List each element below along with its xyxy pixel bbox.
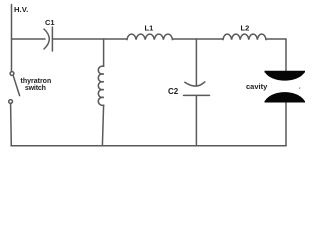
inductor L1 (127, 34, 173, 39)
thyratron switch top terminal (10, 72, 14, 76)
wire top rail L1 to L2 (over C2 junction) (173, 38, 224, 40)
wire left vertical below switch (10, 103, 13, 145)
svg-text:C2: C2 (168, 87, 179, 96)
thyratron switch bottom terminal (9, 100, 13, 104)
wire middle branch below coil (102, 105, 103, 146)
wire middle branch above coil (103, 39, 105, 66)
cavity bottom electrode (265, 92, 306, 102)
svg-text:L1: L1 (145, 24, 154, 33)
thyratron switch blade (13, 76, 19, 95)
svg-text:H.V.: H.V. (14, 5, 28, 14)
wire right vertical below cavity (285, 102, 287, 146)
svg-text:cavity: cavity (246, 82, 268, 91)
capacitor C1 curved plate (44, 29, 49, 49)
wire C2 branch above plate (195, 39, 197, 86)
svg-text:thyratron: thyratron (21, 78, 52, 85)
wire top rail L2 to right corner (266, 38, 286, 40)
speck in cavity gap (299, 88, 300, 89)
svg-text:L2: L2 (241, 24, 250, 33)
wire top rail C1 to L1 (52, 38, 127, 40)
inductor L2 (223, 34, 266, 39)
wire C2 branch below plate (195, 95, 197, 145)
capacitor C1 straight plate (51, 27, 53, 51)
wire top rail left segment (12, 38, 46, 40)
svg-text:C1: C1 (45, 18, 55, 27)
wire right vertical above cavity (285, 39, 287, 71)
svg-text:switch: switch (25, 85, 46, 92)
wire bottom rail (11, 145, 286, 147)
inductor middle vertical coil (98, 66, 103, 105)
wire H.V. input stub and left vertical (11, 5, 13, 72)
capacitor C2 straight plate (184, 94, 210, 96)
capacitor C2 curved plate (185, 82, 205, 86)
cavity top electrode (265, 72, 306, 81)
